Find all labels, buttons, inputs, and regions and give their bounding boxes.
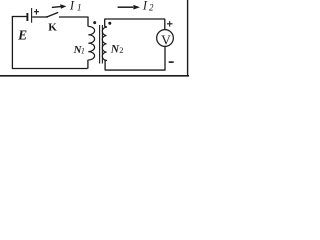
wire down to voltmeter: [164, 19, 166, 30]
switch pivot nub: [46, 16, 48, 18]
secondary winding N2: [102, 26, 106, 60]
table bottom border: [0, 75, 189, 77]
primary winding N1: [88, 26, 94, 60]
wire switch to transformer: [59, 16, 88, 18]
primary coil bottom lead: [87, 60, 89, 69]
battery E negative plate: [26, 13, 28, 21]
voltmeter circle: [157, 30, 174, 47]
table right border: [187, 0, 189, 76]
svg-text:2: 2: [149, 3, 154, 13]
arrowhead I1: [60, 4, 66, 9]
secondary bottom lead: [104, 60, 106, 70]
svg-text:V: V: [161, 33, 171, 48]
wire top-left to battery: [12, 16, 27, 18]
current arrow I2 shaft: [118, 6, 134, 8]
transformer core line 1: [99, 25, 101, 64]
battery plus sign: [34, 9, 39, 15]
wire left vertical and bottom of left loop: [12, 17, 87, 69]
bottom wire of right loop: [105, 69, 166, 71]
voltmeter minus sign: [169, 61, 174, 63]
wire voltmeter to bottom wire: [164, 46, 166, 70]
wire secondary top to voltmeter corner: [105, 18, 165, 20]
svg-text:1: 1: [81, 47, 85, 56]
arrowhead I2: [133, 5, 140, 10]
secondary top lead: [104, 19, 106, 27]
svg-text:I: I: [69, 0, 75, 12]
svg-text:K: K: [48, 21, 57, 33]
svg-text:1: 1: [77, 4, 82, 14]
svg-text:I: I: [142, 0, 148, 12]
wire down to primary coil: [87, 17, 89, 27]
svg-text:E: E: [17, 27, 27, 42]
polarity dot primary: [93, 21, 96, 24]
transformer core line 2: [101, 25, 103, 64]
svg-text:N: N: [110, 44, 120, 56]
svg-text:2: 2: [119, 45, 123, 55]
current arrow I1 shaft: [52, 6, 61, 9]
polarity dot secondary: [108, 22, 111, 25]
battery E positive plate: [31, 8, 33, 23]
voltmeter plus sign: [167, 21, 173, 27]
wire battery to switch: [32, 16, 47, 18]
switch K blade: [47, 12, 58, 17]
